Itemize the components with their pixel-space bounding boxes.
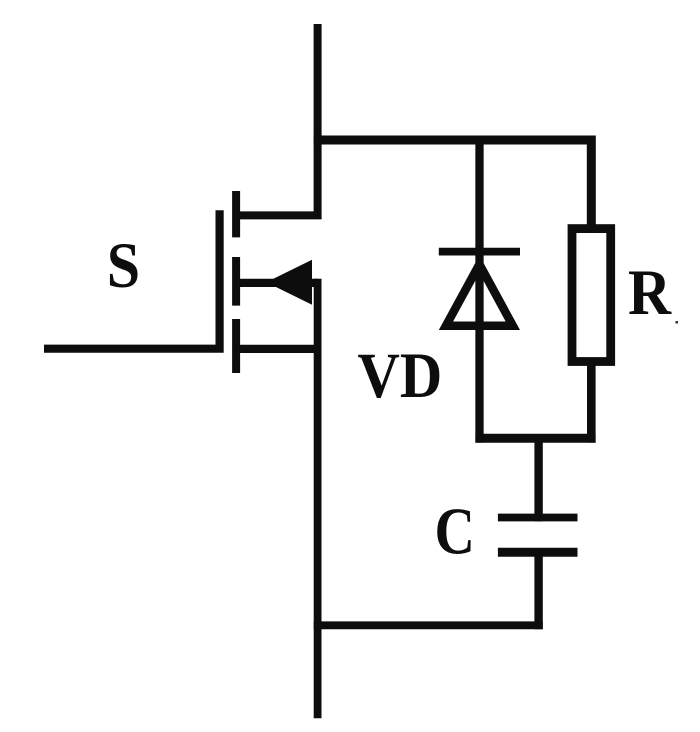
wire: capacitor upper lead <box>534 434 542 521</box>
diode VD triangle <box>446 264 513 325</box>
wire: source connection horizontal <box>236 345 318 353</box>
svg-text:VD: VD <box>358 340 443 412</box>
svg-text:R: R <box>628 257 672 329</box>
transistor Q1 channel bar bottom (source) <box>232 319 240 373</box>
transistor Q1 channel bar top (drain) <box>232 191 240 237</box>
transistor Q1 channel bar middle (body) <box>232 257 240 306</box>
capacitor C bottom plate <box>498 548 578 557</box>
diode VD cathode bar <box>439 248 520 256</box>
wire: capacitor lower lead <box>534 548 542 629</box>
wire: resistor lower lead <box>587 361 596 443</box>
transistor Q1 gate lead and gate line <box>44 210 220 348</box>
svg-text:C: C <box>435 495 475 569</box>
wire: top rail from drain line to resistor branch <box>314 140 592 230</box>
transistor Q1 body arrow <box>266 260 312 305</box>
wire: bottom rail <box>314 621 543 629</box>
resistor R body <box>572 229 611 362</box>
capacitor C top plate <box>498 514 578 522</box>
wire: source/body vertical down to bottom edge <box>314 279 322 719</box>
svg-text:S: S <box>107 230 140 302</box>
wire: diode branch vertical <box>475 136 483 443</box>
wire: bottom horizontal joining VD and R <box>475 434 595 443</box>
wire: body connection horizontal <box>236 279 318 287</box>
wire: drain lead up from MOSFET to top edge <box>236 24 318 215</box>
stray dot artifact right of R <box>676 321 679 324</box>
